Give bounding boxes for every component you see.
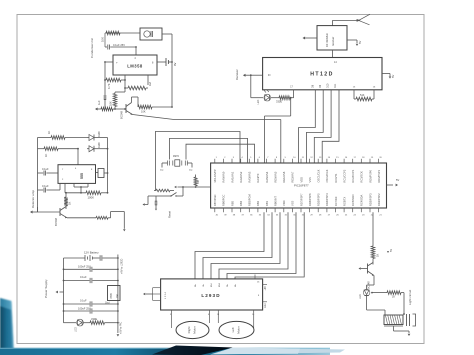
- resistor R6 10K collector: [132, 97, 173, 114]
- U5 top pins: [213, 157, 382, 182]
- svg-text:7805: 7805: [109, 293, 113, 299]
- svg-text:Condenser mic: Condenser mic: [90, 37, 94, 58]
- svg-text:0.1uF: 0.1uF: [42, 184, 49, 188]
- svg-text:RD1/PSP1: RD1/PSP1: [377, 169, 381, 182]
- svg-text:Gnd: Gnd: [264, 303, 267, 308]
- resistor R10 1K base: [64, 192, 71, 209]
- svg-text:0.1uF: 0.1uF: [80, 299, 87, 303]
- relay K1 contacts: [403, 313, 415, 326]
- node arrow detector: [30, 210, 38, 213]
- wire motor ctl 1: [195, 212, 264, 279]
- resistor R9 100K: [86, 191, 108, 200]
- transistor Q3 BC548: [368, 259, 375, 290]
- wire under 555: [65, 183, 88, 193]
- resistor R13 51K osc: [354, 90, 374, 101]
- svg-text:4148: 4148: [98, 142, 101, 148]
- wire mic top rail: [105, 33, 140, 47]
- svg-text:Left: Left: [231, 327, 235, 332]
- capacitor C5 reset: [155, 196, 157, 211]
- svg-text:0.1uF: 0.1uF: [42, 167, 49, 171]
- svg-text:51K: 51K: [360, 94, 365, 97]
- svg-text:100uF 25V: 100uF 25V: [78, 265, 91, 269]
- label 12V Battery: [84, 251, 99, 255]
- svg-text:RD0/PSP0: RD0/PSP0: [368, 169, 372, 182]
- svg-text:4148: 4148: [98, 131, 101, 137]
- node arrow psu: [56, 291, 64, 294]
- svg-text:RB3/PGM: RB3/PGM: [248, 194, 252, 206]
- svg-text:100K: 100K: [88, 196, 95, 200]
- rail 555 right: [107, 138, 109, 194]
- svg-text:RD5/PSP5: RD5/PSP5: [317, 193, 321, 206]
- svg-text:RA1/AN1: RA1/AN1: [230, 171, 234, 182]
- resistor R5 10K: [101, 107, 126, 111]
- svg-text:RC4/SDA: RC4/SDA: [360, 194, 364, 206]
- svg-text:10K: 10K: [198, 179, 200, 184]
- svg-text:VSS: VSS: [308, 177, 312, 182]
- svg-text:1K: 1K: [392, 296, 395, 299]
- wire data D9 HT12D to PIC: [307, 90, 324, 163]
- svg-text:receiver: receiver: [331, 37, 335, 46]
- resistor R4 10K vertical: [109, 92, 117, 109]
- wire HT12D input: [250, 74, 263, 76]
- schematic page border: [17, 15, 424, 344]
- svg-text:330E: 330E: [91, 317, 97, 321]
- switch SW1 reset: [156, 187, 183, 197]
- wire data D11 HT12D to PIC: [322, 90, 339, 163]
- node input arrow: [95, 107, 101, 110]
- svg-text:D10: D10: [327, 83, 330, 88]
- svg-text:Motor: Motor: [193, 326, 197, 333]
- svg-text:+: +: [116, 61, 118, 65]
- svg-text:5V: 5V: [396, 178, 399, 182]
- svg-text:RC3/SCK: RC3/SCK: [360, 171, 364, 183]
- svg-text:RA3/AN3: RA3/AN3: [248, 171, 252, 182]
- label Receiver: [235, 69, 239, 80]
- wire MCLR: [174, 186, 210, 189]
- wire osc2: [186, 144, 255, 163]
- crystal X1 4MHz: [160, 156, 193, 172]
- U6 right pins: [255, 275, 267, 309]
- svg-text:HT12D: HT12D: [310, 72, 333, 78]
- led D4: [64, 319, 84, 332]
- node arrow rf data: [303, 36, 318, 39]
- label Power Supply: [44, 279, 48, 298]
- trimpot RV1: [96, 169, 109, 178]
- svg-text:LED: LED: [359, 294, 362, 299]
- svg-text:0.1uF 25V: 0.1uF 25V: [113, 43, 125, 47]
- svg-text:BC548: BC548: [54, 218, 58, 226]
- U6 top pin labels: [194, 282, 237, 287]
- capacitor C4 0.1uF: [38, 183, 61, 192]
- svg-text:RB6/PGC: RB6/PGC: [222, 194, 226, 206]
- svg-text:OSC2/CLK: OSC2/CLK: [325, 169, 329, 182]
- rail psu left: [63, 258, 65, 323]
- rail 9V transmitter: [171, 34, 173, 107]
- svg-text:+5V to PIC: +5V to PIC: [120, 322, 123, 334]
- svg-text:10K: 10K: [101, 37, 105, 42]
- svg-text:12V Battery: 12V Battery: [84, 251, 99, 255]
- U5 vcc right: [387, 178, 400, 186]
- svg-text:OSC1/CLK: OSC1/CLK: [317, 169, 321, 182]
- label +5V to PIC: [117, 322, 123, 337]
- resistor R7 1K: [47, 131, 65, 140]
- svg-text:RB7/PGD: RB7/PGD: [213, 194, 217, 206]
- capacitor C9 100uF 25V: [63, 306, 119, 313]
- svg-text:5V: 5V: [390, 249, 393, 252]
- svg-text:RE2/AN7: RE2/AN7: [291, 171, 295, 182]
- wire PIC to light: [372, 212, 374, 246]
- label Light circuit: [408, 290, 412, 305]
- svg-text:RC7/RX: RC7/RX: [334, 196, 338, 206]
- resistor R14 10K pullup: [194, 175, 200, 187]
- svg-text:Reset: Reset: [168, 211, 172, 218]
- svg-text:RD6/PSP6: RD6/PSP6: [308, 193, 312, 206]
- wire 555 top rail: [38, 137, 108, 139]
- label Condenser mic: [90, 37, 94, 58]
- svg-text:4.7K: 4.7K: [107, 83, 111, 89]
- svg-text:RE1/AN6: RE1/AN6: [282, 171, 286, 182]
- svg-text:RA5/AN4: RA5/AN4: [265, 171, 269, 182]
- svg-text:1K: 1K: [376, 254, 380, 257]
- svg-text:Motor: Motor: [237, 326, 241, 333]
- svg-text:L293D: L293D: [201, 293, 220, 298]
- node arrow reset: [143, 196, 175, 206]
- label +9V to L293D: [118, 252, 124, 274]
- U6 bottom pins: [170, 310, 255, 328]
- wire sound sensor to PIC: [280, 120, 282, 164]
- pale blue blade: [210, 348, 345, 355]
- node arrow ht12d in: [243, 74, 251, 77]
- wire led to relay: [367, 296, 385, 315]
- led D3: [257, 89, 271, 104]
- battery B1 9V: [166, 58, 177, 66]
- U5 bottom pins: [213, 193, 382, 217]
- capacitor C6 100uF 25V: [63, 265, 119, 272]
- svg-text:RB0/INT: RB0/INT: [273, 196, 277, 206]
- transistor Q2 BC548: [54, 207, 67, 227]
- svg-text:9V: 9V: [173, 62, 177, 66]
- wire motor ctl 2: [203, 212, 272, 279]
- wire osc1: [170, 138, 248, 163]
- resistor R2 4.7K: [104, 78, 126, 89]
- svg-text:+9V: +9V: [264, 286, 267, 291]
- wire base from rail: [38, 207, 61, 212]
- teal wedge bottom-left: [0, 298, 14, 355]
- svg-text:100uF 25V: 100uF 25V: [78, 306, 91, 310]
- svg-text:330E: 330E: [276, 100, 282, 104]
- svg-text:0.1uF: 0.1uF: [80, 275, 87, 279]
- svg-text:5V: 5V: [358, 41, 362, 44]
- svg-text:1uF: 1uF: [97, 100, 101, 105]
- wire rf to HT12D pin14: [332, 50, 334, 58]
- rail psu right: [117, 258, 119, 333]
- rf module U3 433MHz receiver: [317, 26, 347, 50]
- svg-text:PIC16F877: PIC16F877: [294, 184, 309, 188]
- wire Q2 emitter out: [67, 217, 96, 219]
- svg-text:RE0/AN5: RE0/AN5: [273, 171, 277, 182]
- motor M2 left: [219, 321, 254, 338]
- diode D2 4148: [89, 142, 101, 152]
- wire Q3 emitter: [367, 276, 374, 290]
- timer U2 555: [58, 165, 96, 184]
- svg-text:LM358: LM358: [127, 64, 143, 69]
- antenna ANT1: [333, 14, 371, 25]
- wire HT12D vcc: [382, 74, 395, 79]
- svg-text:1 2 3 4: 1 2 3 4: [165, 292, 167, 299]
- resistor R17 1K: [371, 246, 379, 259]
- svg-text:4MHz: 4MHz: [173, 156, 180, 158]
- motor M1 right: [176, 321, 209, 338]
- svg-text:RA4/T0: RA4/T0: [256, 173, 260, 182]
- capacitor C8 0.1uF: [63, 299, 119, 307]
- svg-text:RC5/SDO: RC5/SDO: [351, 194, 355, 206]
- transistor Q1 BC548: [120, 97, 133, 119]
- svg-text:RA0/AN0: RA0/AN0: [222, 171, 226, 182]
- wire U1 right pin to battery: [157, 61, 166, 63]
- black swoosh: [152, 346, 233, 355]
- svg-text:RC6/TX: RC6/TX: [342, 197, 346, 206]
- resistor R15 10K: [154, 189, 174, 192]
- svg-text:BC548: BC548: [120, 111, 124, 119]
- wire bracket B1: [155, 132, 240, 191]
- svg-text:RD3/PSP3: RD3/PSP3: [368, 193, 372, 206]
- wire rf vcc: [347, 40, 362, 46]
- wire data D8 HT12D to PIC: [299, 90, 316, 163]
- U4 pin labels bottom: [268, 74, 376, 88]
- led D5: [359, 289, 370, 299]
- svg-text:Power Supply: Power Supply: [44, 279, 48, 298]
- wire data D10 HT12D to PIC: [314, 90, 331, 163]
- mcu U5 PIC16F877 body: [211, 163, 387, 208]
- diode D1 4148: [87, 131, 101, 141]
- wire U1 left pin: [104, 61, 113, 63]
- svg-text:1K: 1K: [47, 131, 51, 134]
- svg-text:RC0/T1: RC0/T1: [334, 173, 338, 182]
- svg-text:LED: LED: [257, 99, 260, 104]
- svg-text:RB2: RB2: [256, 200, 260, 206]
- driver U6 L293D: [161, 279, 263, 310]
- svg-text:+9V to L293D: +9V to L293D: [121, 258, 124, 274]
- op-amp U1 LM358: [113, 55, 157, 75]
- resistor R3 1M feedback: [124, 82, 152, 90]
- wire cap to U1 pin3: [135, 47, 137, 55]
- wire Q3 base: [359, 267, 368, 270]
- svg-text:RB4: RB4: [239, 200, 243, 206]
- svg-text:IN: IN: [268, 74, 271, 77]
- svg-text:555: 555: [80, 173, 84, 179]
- capacitor C7 0.1uF: [63, 275, 119, 283]
- svg-text:VDD: VDD: [299, 177, 303, 183]
- wire mic to 9V rail: [162, 33, 172, 35]
- label Reset: [168, 211, 172, 218]
- resistor R12 330E: [271, 96, 291, 104]
- svg-text:VSS: VSS: [291, 201, 295, 206]
- capacitor C2 1uF on left rail: [97, 62, 106, 109]
- svg-text:LED: LED: [75, 327, 78, 332]
- svg-text:D11: D11: [334, 83, 337, 88]
- svg-text:RF 433MHz: RF 433MHz: [325, 32, 329, 47]
- svg-text:Detector amp: Detector amp: [31, 190, 35, 208]
- wire VT to PIC: [265, 98, 291, 163]
- wire to pin17: [290, 90, 294, 99]
- wire led row: [371, 292, 387, 294]
- wire U1 pin1 down: [124, 75, 126, 92]
- capacitor C1 0.1uF: [105, 43, 137, 50]
- capacitor C3 0.1uF: [38, 167, 59, 176]
- U6 left pins: [143, 288, 167, 301]
- wire 555 second row: [38, 148, 109, 150]
- battery B2 12V: [64, 255, 119, 261]
- U1 pin labels: [116, 57, 154, 65]
- svg-text:RA2/AN2: RA2/AN2: [239, 171, 243, 182]
- wire detector out up: [111, 212, 126, 232]
- svg-text:VDD: VDD: [282, 200, 286, 206]
- svg-text:Receiver: Receiver: [235, 69, 239, 80]
- wire to 555 pin8: [77, 149, 79, 165]
- teal bottom band: [0, 348, 330, 355]
- svg-text:1K: 1K: [68, 202, 72, 205]
- microphone MK1: [140, 28, 162, 40]
- svg-text:10K: 10K: [141, 110, 146, 114]
- wire motor ctl 5: [227, 212, 296, 279]
- relay K1 coil: [384, 315, 403, 326]
- wire Q1 emitter to PIC: [133, 115, 281, 120]
- U2 pin labels: [62, 168, 93, 181]
- svg-text:5V: 5V: [391, 75, 395, 78]
- svg-text:Right: Right: [187, 326, 191, 333]
- wire fb to R4: [115, 91, 125, 93]
- U4 pin14 label: [334, 61, 337, 64]
- svg-text:RD4/PSP4: RD4/PSP4: [325, 193, 329, 206]
- wire U1 pin7 down: [147, 75, 149, 85]
- svg-text:RC1/CCP2: RC1/CCP2: [342, 169, 346, 182]
- wire vt down: [251, 75, 263, 98]
- svg-text:Out: Out: [116, 294, 119, 298]
- wire relay right: [403, 293, 405, 314]
- svg-text:RB5: RB5: [230, 200, 234, 206]
- svg-text:Light circuit: Light circuit: [408, 290, 412, 305]
- svg-text:RD2/PSP2: RD2/PSP2: [377, 193, 381, 206]
- wire motor ctl 4: [219, 212, 288, 279]
- label 5V relay: [387, 249, 393, 253]
- svg-text:1K: 1K: [44, 154, 48, 157]
- wire motor ctl 3: [211, 212, 280, 279]
- resistor R8 1K: [44, 147, 58, 157]
- svg-text:RB1: RB1: [265, 200, 269, 206]
- decoder U4 HT12D: [263, 58, 382, 90]
- wire motor ctl 6: [235, 212, 304, 279]
- wire relay bottom: [394, 326, 411, 336]
- rail 555 left: [37, 138, 39, 213]
- svg-text:MCLR/VPP: MCLR/VPP: [213, 169, 217, 183]
- resistor R18 1K: [387, 291, 404, 299]
- resistor R16 330E: [84, 317, 119, 325]
- svg-text:10K: 10K: [109, 101, 113, 106]
- svg-text:RC2/CCP1: RC2/CCP1: [351, 169, 355, 182]
- label Detector amp: [31, 190, 35, 208]
- regulator U7 7805: [105, 286, 120, 305]
- resistor R1 10K: [101, 31, 121, 42]
- resistor R11: [96, 216, 111, 219]
- svg-text:RD7/PSP7: RD7/PSP7: [299, 193, 303, 206]
